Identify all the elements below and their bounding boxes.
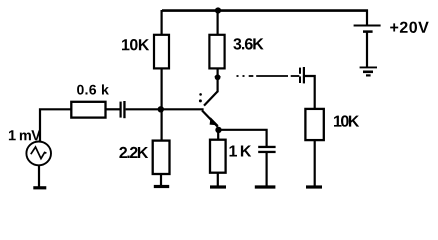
transistor Q1 base bar (faded dots) [199, 93, 202, 102]
wire collector column top (rail dot to RC 3.6K) [217, 10, 219, 35]
resistor RS 0.6k [71, 102, 105, 118]
resistor RL 10K [305, 109, 323, 140]
wire emitter node to RE [217, 130, 219, 140]
wire RC bottom to collector node [217, 68, 219, 92]
wire RL bottom lead [314, 140, 316, 186]
wire battery to earth [366, 32, 368, 67]
battery V1 top lead [366, 10, 368, 26]
resistor RC 3.6K [209, 35, 224, 69]
label RE value 1 K [230, 146, 252, 157]
wire RS to C1 [106, 108, 120, 110]
wire R2 bottom lead [160, 174, 162, 185]
wire RE bottom lead [217, 173, 219, 186]
transistor Q1 collector lead [204, 91, 218, 105]
ground earth at battery [360, 67, 377, 75]
label RL value 10K [334, 115, 359, 126]
wire left column top (rail to R1 10K) [161, 10, 163, 35]
label source value 1 mV [9, 130, 41, 140]
wire C3 to RL [305, 76, 315, 109]
node emitter junction [215, 127, 221, 133]
battery V1 plates [354, 26, 381, 32]
label battery +20V [390, 22, 429, 33]
voltage source VS (AC) [26, 142, 51, 166]
transistor Q1 emitter arrow [210, 117, 219, 125]
ground at RL [306, 185, 322, 188]
wire C2 bottom lead [266, 153, 268, 186]
wire top supply rail [162, 9, 368, 12]
wire R1 bottom to base node [161, 68, 163, 141]
ground at source [33, 186, 46, 189]
ground at RE [210, 185, 226, 188]
node collector junction [214, 74, 220, 80]
wire dashed collector tap to C3 [237, 75, 300, 77]
resistor R2 2.2K [153, 141, 170, 174]
node top rail junction [215, 7, 221, 13]
node base junction [158, 106, 164, 112]
capacitor C2 emitter bypass [258, 146, 275, 153]
wire base node to Q1 base [161, 108, 204, 110]
label R1 value 10K [122, 39, 149, 50]
label RS value 0.6 k [77, 84, 109, 94]
wire C1 to base node [126, 108, 161, 110]
label RC value 3.6K [233, 38, 263, 49]
transistor Q1 emitter lead [202, 110, 218, 126]
ground at R2 [154, 185, 169, 188]
label R2 value 2.2K [119, 147, 148, 158]
resistor R1 10K [154, 35, 169, 69]
resistor RE 1K [210, 140, 226, 173]
capacitor C3 output coupling [299, 67, 305, 83]
wire source bottom lead [38, 165, 40, 187]
ground at C2 [255, 185, 276, 188]
wire emitter node to C2 [219, 130, 267, 147]
capacitor C1 input coupling [120, 101, 126, 118]
wire input net: source corner to RS [40, 109, 72, 142]
